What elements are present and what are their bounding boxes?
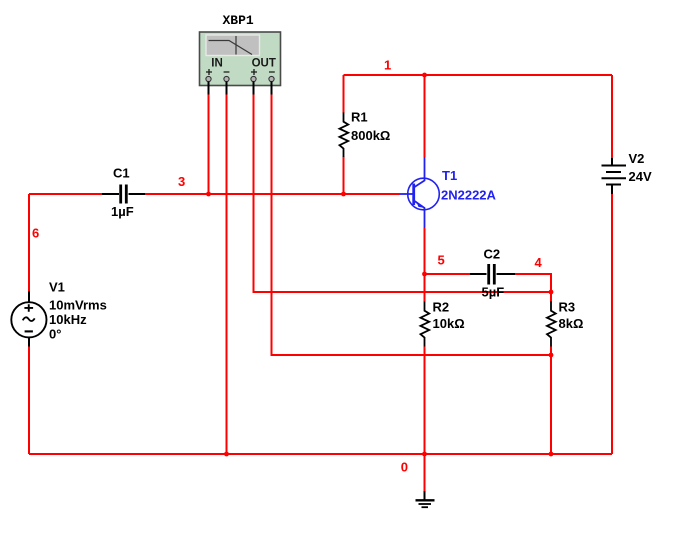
wire node 3 horizontal left of C1 [29,193,102,195]
junction node 4 / OUT+ [549,290,554,295]
svg-text:R3: R3 [559,300,576,315]
wire emitter to node 5 [424,228,426,302]
capacitor C1 [102,185,145,204]
junction IN- rail [224,452,229,457]
svg-text:8kΩ: 8kΩ [559,316,584,331]
svg-text:10mVrms: 10mVrms [49,298,107,313]
svg-text:R2: R2 [433,300,450,315]
svg-text:0°: 0° [49,327,61,342]
wire OUT+ vertical then right [254,95,552,293]
junction node 5 [422,272,427,277]
junction collector top rail [422,73,427,78]
svg-text:C2: C2 [484,247,501,262]
transistor T1 [400,157,440,228]
ac source V1 [11,292,46,347]
svg-text:10kΩ: 10kΩ [433,316,465,331]
svg-text:2N2222A: 2N2222A [441,187,497,202]
wire collector vertical red [424,75,426,157]
svg-text:4: 4 [535,255,543,270]
wire IN- vertical [226,95,228,455]
XBP1 pin stubs [209,82,272,95]
svg-text:1: 1 [384,57,391,72]
wire R1 top [343,75,345,113]
svg-text:V1: V1 [49,279,65,294]
wire R2 bottom to ground [424,347,426,492]
wire top rail node 1 [344,74,613,76]
junction ground rail [422,452,427,457]
svg-text:1µF: 1µF [111,204,134,219]
wire node 6 vertical left [28,194,30,292]
svg-text:T1: T1 [442,168,457,183]
svg-text:IN: IN [211,58,223,70]
svg-text:0: 0 [401,459,408,474]
svg-text:C1: C1 [113,165,130,180]
wire bottom rail node 0 [29,453,612,455]
wire IN+ vertical [208,95,210,195]
wire R1 bottom [343,157,345,195]
junction R1 bottom [341,192,346,197]
junction R3 rail [549,452,554,457]
battery V2 [602,158,627,194]
resistor R1 [340,113,349,158]
resistor R3 [547,302,556,347]
wire V2 top red [611,75,613,158]
svg-text:800kΩ: 800kΩ [351,128,390,143]
wire OUT- vertical then right [272,95,552,356]
svg-text:V2: V2 [629,151,645,166]
svg-text:5: 5 [438,252,445,267]
svg-text:R1: R1 [351,110,368,125]
junction node 3 / IN+ [206,192,211,197]
wire C2 right to node4 corner down [515,274,551,302]
svg-text:OUT: OUT [252,58,276,70]
ground [416,491,435,507]
wire node 3 horizontal right of C1 [145,193,400,195]
svg-text:5µF: 5µF [482,285,505,300]
wire R3 bottom to rail [550,347,552,455]
svg-text:3: 3 [178,174,185,189]
wire node 5 to C2 [425,273,471,275]
junction R3 bottom / OUT- [549,353,554,358]
resistor R2 [421,302,430,347]
svg-text:10kHz: 10kHz [49,312,87,327]
svg-text:XBP1: XBP1 [223,13,254,28]
svg-text:24V: 24V [629,169,652,184]
wire V2 bottom to rail [611,194,613,454]
svg-text:6: 6 [32,225,39,240]
bode plotter XBP1 [200,32,281,86]
capacitor C2 [470,264,515,285]
wire V1 bottom to rail [28,347,30,455]
